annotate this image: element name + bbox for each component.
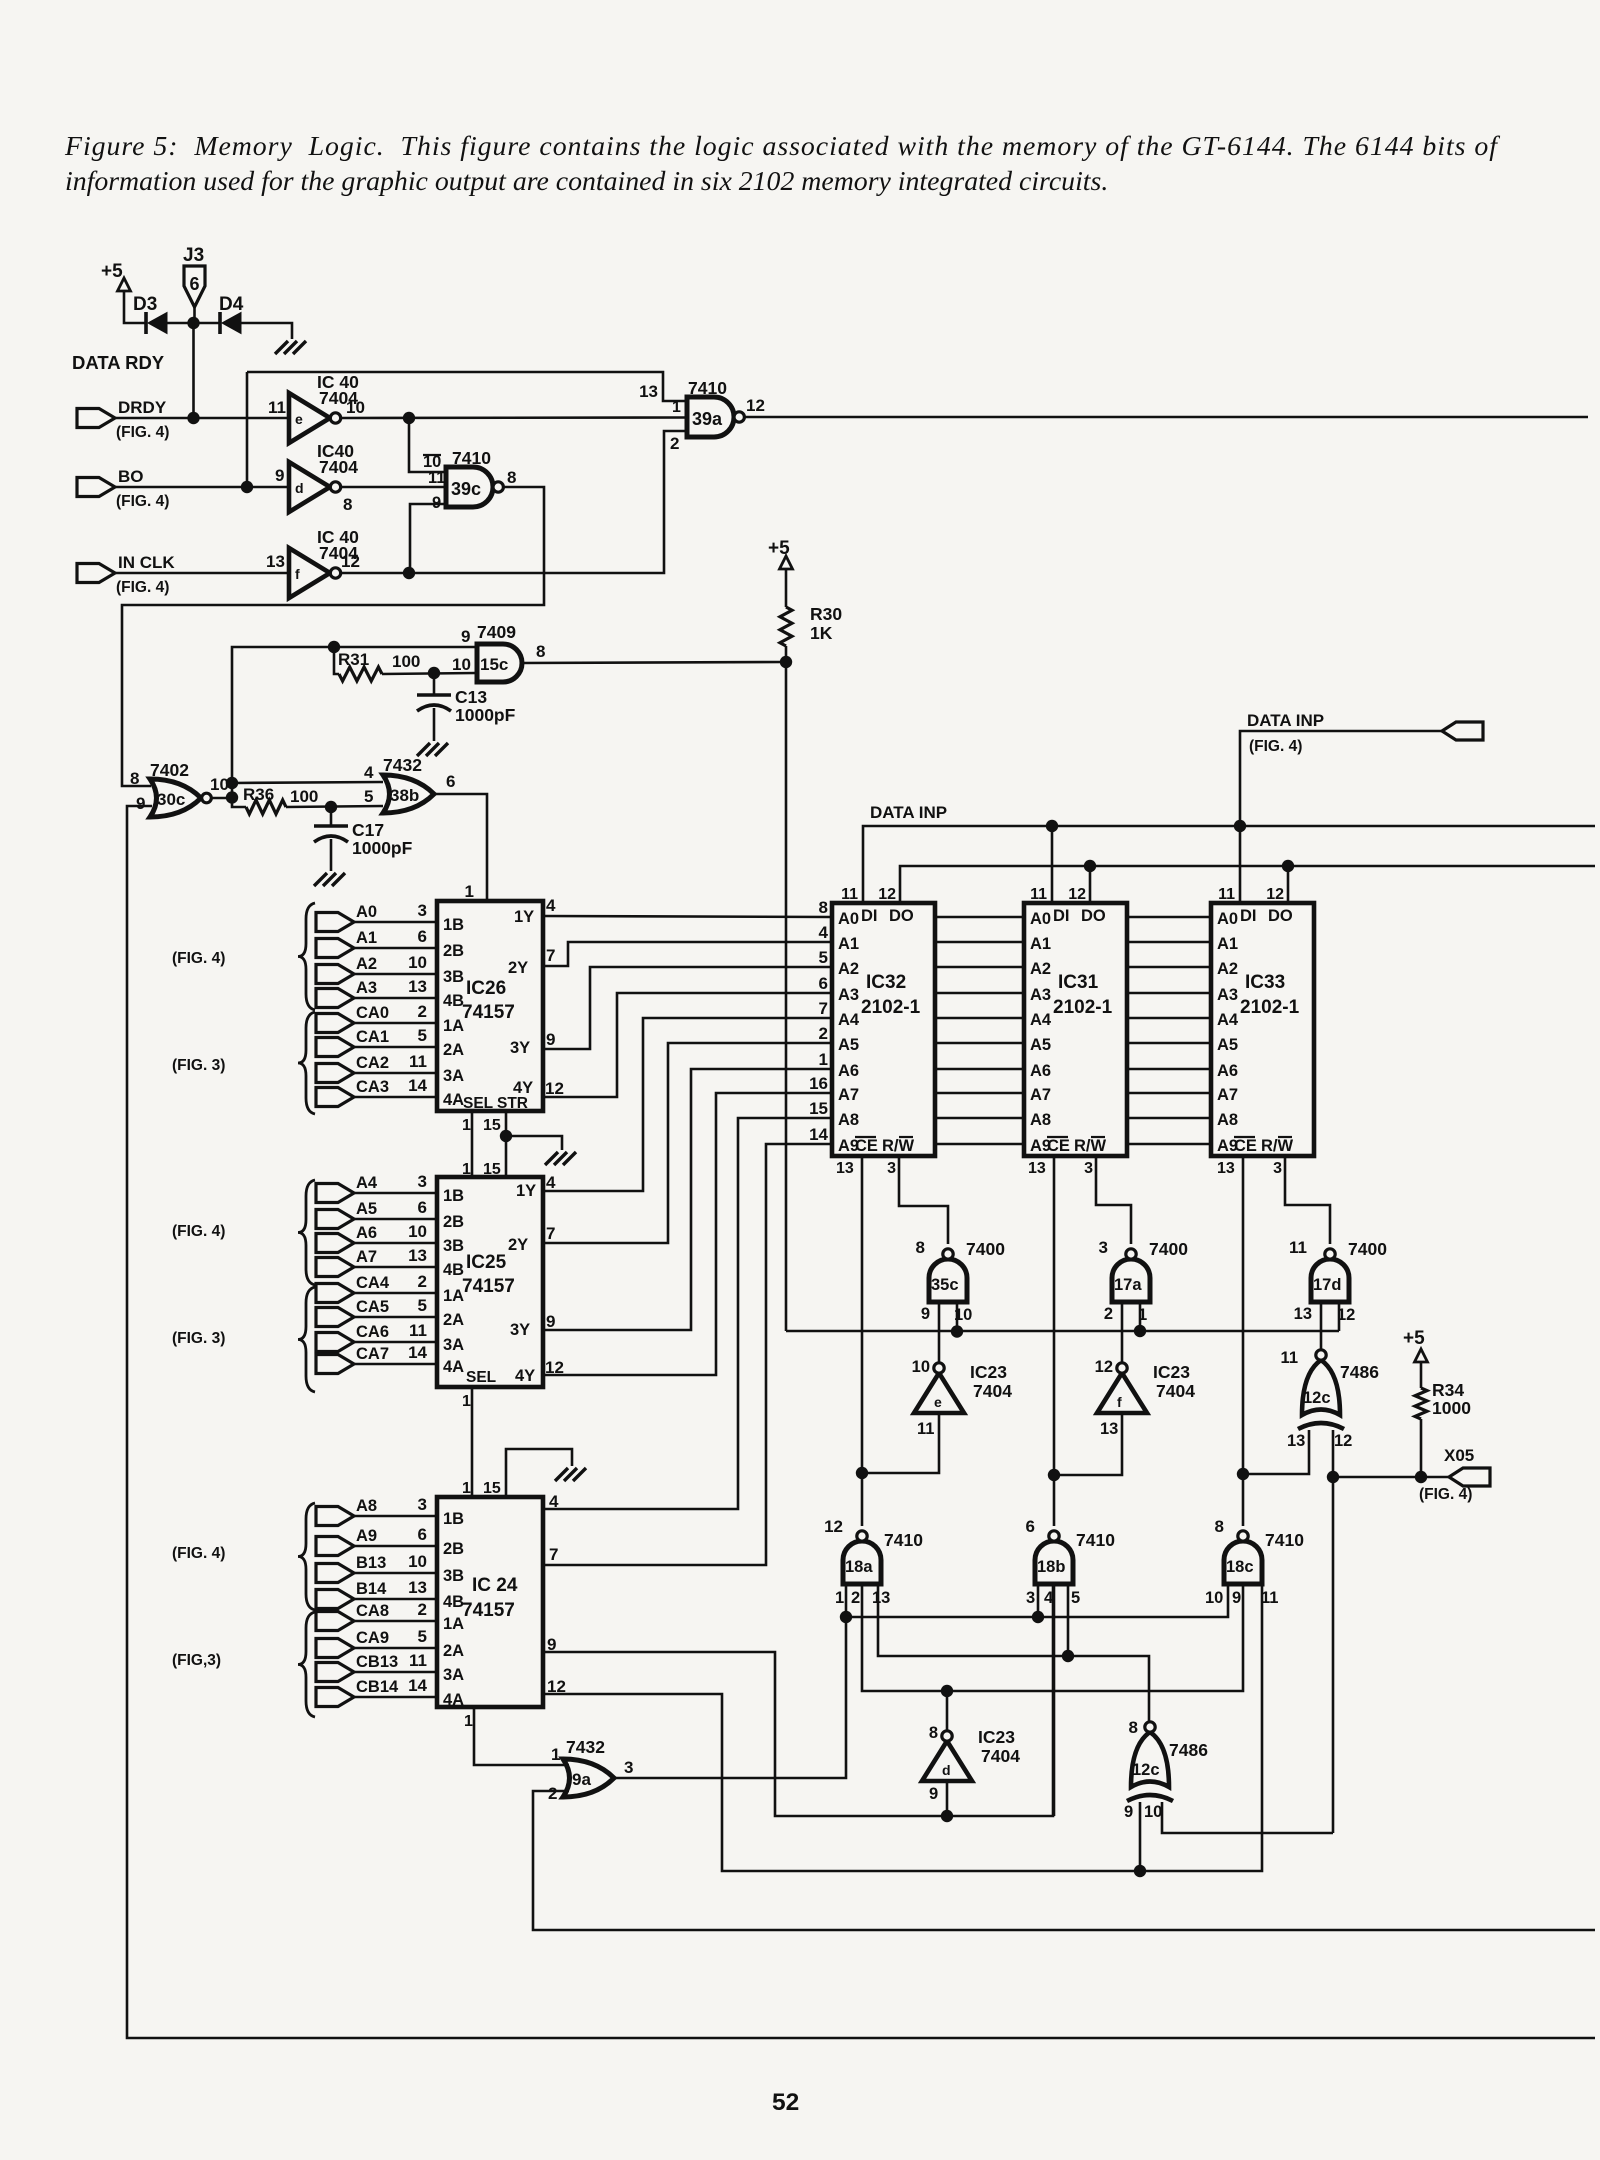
wire CA8 to IC24 pin 2 xyxy=(354,1620,437,1623)
label IC26 xyxy=(466,978,506,999)
svg-text:Figure 5: Memory Logic. Thi: Figure 5: Memory Logic. This figure cont… xyxy=(64,131,1500,162)
svg-text:12: 12 xyxy=(341,552,360,571)
svg-text:7410: 7410 xyxy=(1076,1530,1115,1550)
svg-text:IC23: IC23 xyxy=(1153,1362,1190,1382)
label pins 13/3 (IC33) xyxy=(1217,1160,1282,1177)
node 30c output upper xyxy=(226,777,238,789)
node DO IC31 xyxy=(1084,860,1096,872)
svg-text:X05: X05 xyxy=(1444,1446,1474,1465)
label 7404 (d) xyxy=(981,1746,1020,1766)
svg-text:DI: DI xyxy=(1240,907,1257,925)
wire CB14 to IC24 pin 14 xyxy=(354,1696,437,1699)
svg-text:f: f xyxy=(1117,1394,1122,1410)
wire 12c-l pin 9 stub xyxy=(1139,1802,1142,1871)
svg-text:8: 8 xyxy=(130,769,139,788)
svg-text:(FIG. 4): (FIG. 4) xyxy=(116,493,169,510)
svg-text:A7: A7 xyxy=(356,1248,377,1266)
label IC32 xyxy=(866,972,906,993)
svg-text:74157: 74157 xyxy=(462,1276,515,1297)
svg-text:35c: 35c xyxy=(931,1276,959,1294)
svg-text:7400: 7400 xyxy=(1348,1239,1387,1259)
connector X05 output xyxy=(1419,1446,1490,1503)
wire R31 to 15c pin 10 xyxy=(382,673,476,674)
connector CA3 input xyxy=(316,1076,428,1107)
svg-text:B13: B13 xyxy=(356,1554,386,1572)
label 7410 (18c) xyxy=(1265,1530,1304,1550)
svg-text:4B: 4B xyxy=(443,992,464,1010)
nand-gate 39c (7410) xyxy=(446,467,503,507)
wire IC32 CE line xyxy=(861,1156,864,1473)
label 7432 (9a) xyxy=(566,1737,605,1757)
wire IC25 2Y to IC32 A5 xyxy=(543,1043,832,1243)
svg-text:7486: 7486 xyxy=(1169,1740,1208,1760)
svg-text:13: 13 xyxy=(408,1246,427,1265)
svg-text:100: 100 xyxy=(290,787,318,806)
svg-text:10: 10 xyxy=(346,398,365,417)
label pins 11/12 (IC31) xyxy=(1030,886,1086,903)
wire C17 to ground xyxy=(330,839,333,871)
svg-text:11: 11 xyxy=(1289,1238,1307,1257)
svg-text:IC26: IC26 xyxy=(466,978,506,999)
svg-text:2B: 2B xyxy=(443,1540,464,1558)
wire CA3 to IC26 pin 14 xyxy=(354,1096,437,1099)
svg-text:12c: 12c xyxy=(1303,1389,1331,1407)
svg-text:1Y: 1Y xyxy=(516,1182,536,1200)
svg-text:9: 9 xyxy=(921,1305,930,1323)
svg-text:13: 13 xyxy=(872,1589,890,1607)
label pin 6 (18b) xyxy=(1026,1517,1035,1536)
svg-text:10: 10 xyxy=(452,655,471,674)
label pin 3 (9a) xyxy=(624,1758,633,1777)
wire f input to CE line xyxy=(1054,1413,1122,1475)
wire IC33 R/W to 17d output xyxy=(1285,1156,1330,1244)
node e-output junction xyxy=(403,412,415,424)
node f-output junction xyxy=(403,567,415,579)
svg-text:DO: DO xyxy=(889,907,914,925)
wire STR down to IC25 xyxy=(505,1136,508,1177)
svg-text:A4: A4 xyxy=(356,1174,378,1192)
svg-text:9: 9 xyxy=(136,794,145,813)
brace FIG4 group (IC25) xyxy=(298,1180,315,1285)
svg-text:2A: 2A xyxy=(443,1041,464,1059)
label pin 13 (IC23 f) xyxy=(1100,1420,1118,1438)
svg-text:13: 13 xyxy=(836,1160,854,1177)
svg-text:A6: A6 xyxy=(356,1224,377,1242)
wire address bus IC32-IC31 xyxy=(935,917,1024,1144)
wire 39a pin13 top line xyxy=(247,372,687,401)
svg-text:1A: 1A xyxy=(443,1287,464,1305)
svg-text:11: 11 xyxy=(917,1420,934,1438)
label 1Y (IC25) xyxy=(516,1173,556,1200)
connector B13 input xyxy=(316,1552,427,1583)
connector DATA INP output xyxy=(1247,711,1483,755)
inverter U-IC23d xyxy=(922,1731,972,1781)
svg-text:DATA INP: DATA INP xyxy=(870,803,947,822)
svg-text:74157: 74157 xyxy=(462,1002,515,1023)
wire A2 to IC26 pin 10 xyxy=(354,973,437,976)
svg-text:R30: R30 xyxy=(810,604,842,624)
label pin 11 (IC40 e) xyxy=(268,398,286,417)
wire IN CLK to inverter f xyxy=(115,572,289,575)
ground (C13) xyxy=(417,743,448,756)
label (FIG. 3) IC25 xyxy=(172,1330,225,1347)
wire +5 to D3 xyxy=(124,291,146,323)
svg-text:9: 9 xyxy=(1232,1589,1241,1607)
wire 18b pin 5 stub xyxy=(1067,1584,1070,1656)
svg-text:R/W: R/W xyxy=(1074,1137,1107,1155)
label IC33 xyxy=(1245,972,1285,993)
wire BO junction up to top line xyxy=(246,372,249,487)
label IC31 xyxy=(1058,972,1099,993)
wire B13 to IC24 pin 10 xyxy=(354,1572,437,1575)
wire 30c output up to 15c pin 9 xyxy=(232,647,476,797)
wire IC26 SEL to IC25 SEL xyxy=(471,1111,474,1177)
title caption line 2 xyxy=(65,166,1108,197)
svg-text:3: 3 xyxy=(624,1758,633,1777)
connector DRDY input xyxy=(77,398,169,441)
svg-text:A5: A5 xyxy=(1217,1036,1238,1054)
label DATA INP (bus) xyxy=(870,803,947,822)
brace FIG4 group (IC24) xyxy=(298,1503,315,1610)
label pin 9 (39c) xyxy=(432,494,441,512)
svg-text:17a: 17a xyxy=(1114,1276,1142,1294)
svg-text:2: 2 xyxy=(418,1002,427,1021)
capacitor C17 1000pF xyxy=(314,820,413,858)
svg-text:2: 2 xyxy=(819,1024,828,1043)
wire IC33 CE line xyxy=(1242,1156,1245,1526)
svg-text:A2: A2 xyxy=(1217,960,1238,978)
svg-text:10: 10 xyxy=(1205,1589,1223,1607)
svg-text:4: 4 xyxy=(546,896,556,915)
label 4Y (IC26) xyxy=(513,1079,564,1098)
wire CA2 to IC26 pin 11 xyxy=(354,1072,437,1075)
wire d input to 3Y line xyxy=(946,1781,949,1816)
multiplexer IC25 74157 xyxy=(437,1177,543,1387)
connector A6 input xyxy=(316,1222,427,1253)
ground (C17) xyxy=(314,873,345,886)
wire DO bus xyxy=(900,866,1595,903)
svg-text:A1: A1 xyxy=(838,935,859,953)
svg-text:12: 12 xyxy=(1068,886,1086,903)
nand-gate 17d (7400) xyxy=(1311,1249,1349,1302)
svg-text:8: 8 xyxy=(1215,1517,1224,1536)
diode D4 xyxy=(219,294,244,334)
svg-text:74157: 74157 xyxy=(462,1600,515,1621)
svg-text:C17: C17 xyxy=(352,820,384,840)
connector CB13 input xyxy=(316,1651,427,1682)
svg-text:A1: A1 xyxy=(356,929,377,947)
label pin 8 (12c lower) xyxy=(1129,1718,1138,1737)
svg-text:2: 2 xyxy=(418,1600,427,1619)
ground (D4) xyxy=(275,341,306,354)
svg-text:A2: A2 xyxy=(838,960,859,978)
svg-text:e: e xyxy=(295,411,303,427)
svg-text:4: 4 xyxy=(364,763,374,782)
svg-text:13: 13 xyxy=(408,977,427,996)
svg-text:4A: 4A xyxy=(443,1091,464,1109)
label pin 11 (39c) xyxy=(428,469,445,487)
page number 52 xyxy=(772,2089,799,2116)
svg-text:14: 14 xyxy=(809,1125,828,1144)
wire D4 to ground xyxy=(241,323,292,339)
wire select bus to 18c pin 10 xyxy=(846,1584,1228,1617)
svg-text:1: 1 xyxy=(672,399,681,416)
wire R30 pull-up bus xyxy=(786,1330,1339,1333)
inverter U-IC40d xyxy=(289,462,341,512)
node IC33 CE junction xyxy=(1237,1468,1249,1480)
wire A8 to IC24 pin 3 xyxy=(354,1515,437,1518)
svg-text:BO: BO xyxy=(118,467,144,486)
svg-text:A3: A3 xyxy=(1030,986,1051,1004)
label pin 10 (IC23 e) xyxy=(912,1358,930,1376)
memory IC33 2102-1 xyxy=(1211,903,1314,1156)
label 7410 (18b) xyxy=(1076,1530,1115,1550)
svg-text:DATA INP: DATA INP xyxy=(1247,711,1324,730)
wire 17a pin 2 to f output xyxy=(1121,1302,1124,1363)
svg-text:1A: 1A xyxy=(443,1017,464,1035)
svg-text:2: 2 xyxy=(1104,1305,1113,1323)
svg-text:2102-1: 2102-1 xyxy=(861,997,921,1018)
svg-text:12: 12 xyxy=(878,886,896,903)
label pin 13 (IC40 f) xyxy=(266,552,285,571)
wire CA7 to IC25 pin 14 xyxy=(354,1363,437,1366)
svg-text:4: 4 xyxy=(1044,1589,1054,1607)
svg-text:STR: STR xyxy=(497,1095,528,1112)
label SEL STR (IC26) xyxy=(463,1095,528,1112)
svg-text:D4: D4 xyxy=(219,294,244,315)
label pin 1 (9a) xyxy=(551,1745,560,1764)
svg-text:18c: 18c xyxy=(1226,1558,1254,1576)
node R30/15c junction xyxy=(780,656,792,668)
svg-text:DI: DI xyxy=(1053,907,1070,925)
wire IC31 CE line xyxy=(1053,1156,1056,1526)
label SEL (IC25) xyxy=(466,1369,496,1386)
svg-text:6: 6 xyxy=(446,772,455,791)
wire IC31 R/W to 17a output xyxy=(1096,1156,1131,1244)
svg-text:A8: A8 xyxy=(1217,1111,1238,1129)
label 7410 (18a) xyxy=(884,1530,923,1550)
svg-text:10: 10 xyxy=(408,1552,427,1571)
resistor R30 1K xyxy=(780,604,842,646)
wire 12c-u pin 13 to CE line xyxy=(1243,1430,1309,1474)
svg-text:3B: 3B xyxy=(443,1567,464,1585)
wire A7 to IC25 pin 13 xyxy=(354,1266,437,1269)
node BO junction xyxy=(241,481,253,493)
svg-text:30c: 30c xyxy=(157,790,185,809)
wire CA0 to IC26 pin 2 xyxy=(354,1022,437,1025)
node 12c lower pin 9 tap xyxy=(1134,1865,1146,1877)
wire 38b pin 4 line xyxy=(232,782,383,783)
label pins 1/15 above IC25 xyxy=(462,1161,501,1178)
label 1Y (IC26) xyxy=(514,896,556,926)
power +5 (top left) xyxy=(101,261,131,291)
svg-text:(FIG. 4): (FIG. 4) xyxy=(116,424,169,441)
label pin 10 (30c) xyxy=(210,775,229,794)
wire IC25 SEL to IC24 SEL xyxy=(471,1387,474,1497)
svg-text:D3: D3 xyxy=(133,294,157,315)
svg-text:A5: A5 xyxy=(356,1200,377,1218)
svg-text:1K: 1K xyxy=(810,623,833,643)
label pin 9 (30c) xyxy=(136,794,145,813)
svg-text:A0: A0 xyxy=(1217,910,1238,928)
label 7404 (e) xyxy=(973,1381,1012,1401)
svg-text:A3: A3 xyxy=(838,986,859,1004)
svg-text:5: 5 xyxy=(418,1026,427,1045)
wire DO stub IC31 xyxy=(1089,866,1092,903)
multiplexer IC24 74157 xyxy=(437,1497,543,1709)
svg-text:13: 13 xyxy=(639,382,658,401)
svg-text:+5: +5 xyxy=(1403,1328,1425,1349)
label pin 7 (IC24) xyxy=(549,1545,558,1564)
svg-text:CA8: CA8 xyxy=(356,1602,389,1620)
wire 30c pin 9 to bottom rail xyxy=(127,806,1595,2038)
wire e input to CE line xyxy=(862,1413,939,1473)
svg-text:9: 9 xyxy=(432,494,441,512)
svg-text:15: 15 xyxy=(483,1117,501,1134)
label pin 4 (38b) xyxy=(364,763,374,782)
node 30c output lower xyxy=(226,791,238,803)
xor-gate 12c lower (7486) xyxy=(1127,1722,1173,1801)
svg-text:2Y: 2Y xyxy=(508,959,528,977)
svg-text:+5: +5 xyxy=(101,261,123,282)
label pin 8 (30c) xyxy=(130,769,139,788)
svg-text:4Y: 4Y xyxy=(515,1367,535,1385)
wire A6 to IC25 pin 10 xyxy=(354,1242,437,1245)
svg-text:CA9: CA9 xyxy=(356,1629,389,1647)
label 7410 (39c) xyxy=(452,448,491,468)
svg-text:A7: A7 xyxy=(1217,1086,1238,1104)
svg-text:4A: 4A xyxy=(443,1358,464,1376)
svg-text:6: 6 xyxy=(418,1198,427,1217)
wire 17d pin 13 to 12c output xyxy=(1320,1302,1323,1349)
wire BO to inverter d xyxy=(115,486,289,489)
node DO IC33 xyxy=(1282,860,1294,872)
wire R34 to X05 xyxy=(1420,1419,1423,1477)
label IC23 (d) xyxy=(978,1727,1015,1747)
connector CA1 input xyxy=(316,1026,427,1057)
svg-text:2Y: 2Y xyxy=(508,1236,528,1254)
svg-text:J3: J3 xyxy=(183,245,204,266)
svg-text:6: 6 xyxy=(1026,1517,1035,1536)
label (FIG. 4) IC26 xyxy=(172,950,225,967)
wire J3 node to DRDY line xyxy=(192,323,195,418)
svg-text:5: 5 xyxy=(418,1296,427,1315)
svg-text:18b: 18b xyxy=(1037,1558,1065,1576)
label IC 40 (f) xyxy=(317,527,359,547)
wire 9a output to 18-gate bus xyxy=(614,1617,846,1778)
label pin 12 (12c upper) xyxy=(1334,1432,1352,1450)
label pin 10 (39c) xyxy=(423,453,441,471)
svg-text:1000pF: 1000pF xyxy=(455,705,516,725)
svg-text:CE: CE xyxy=(1047,1137,1070,1155)
wire IC24 1Y to IC32 A8 xyxy=(543,1118,832,1509)
svg-text:(FIG. 4): (FIG. 4) xyxy=(1249,738,1302,755)
label pin 9 (IC24) xyxy=(547,1635,556,1654)
node 17a pin1 bus tap xyxy=(1134,1325,1146,1337)
svg-text:A5: A5 xyxy=(838,1036,859,1054)
svg-text:9: 9 xyxy=(461,627,470,646)
svg-text:2B: 2B xyxy=(443,1213,464,1231)
label pin 9 (IC40 d) xyxy=(275,466,284,485)
svg-text:100: 100 xyxy=(392,652,420,671)
label (FIG. 3) IC26 xyxy=(172,1057,225,1074)
svg-text:R36: R36 xyxy=(243,785,274,804)
svg-text:IC33: IC33 xyxy=(1245,972,1285,993)
svg-text:e: e xyxy=(934,1394,942,1410)
node IC31 CE junction xyxy=(1048,1469,1060,1481)
svg-text:A9: A9 xyxy=(356,1527,377,1545)
node IC32 CE junction xyxy=(856,1467,868,1479)
diode D3 xyxy=(133,294,167,334)
node 35c pin10 bus tap xyxy=(951,1325,963,1337)
label pin 10 (12c lower) xyxy=(1144,1803,1162,1821)
node 9a/18a pin1 xyxy=(840,1611,852,1623)
node C13 tap xyxy=(428,667,440,679)
label pin 8 (IC23 d) xyxy=(929,1724,938,1742)
svg-text:10: 10 xyxy=(408,953,427,972)
svg-text:7: 7 xyxy=(549,1545,558,1564)
label pin 8 (39c) xyxy=(507,468,516,487)
wire CB13 to IC24 pin 11 xyxy=(354,1671,437,1674)
svg-text:1: 1 xyxy=(835,1589,844,1607)
svg-text:(FIG,3): (FIG,3) xyxy=(172,1652,221,1669)
svg-text:5: 5 xyxy=(1071,1589,1080,1607)
svg-text:CA2: CA2 xyxy=(356,1054,389,1072)
wire 18b pin 4 stub xyxy=(1053,1584,1056,1816)
svg-text:CA6: CA6 xyxy=(356,1323,389,1341)
wire 12c-u pin 12 to X05 net xyxy=(1332,1430,1335,1833)
connector A7 input xyxy=(316,1246,427,1277)
label pins 13/3 (IC31) xyxy=(1028,1160,1093,1177)
svg-text:8: 8 xyxy=(916,1238,925,1257)
connector A8 input xyxy=(316,1495,427,1526)
label 74157 (IC24) xyxy=(462,1600,515,1621)
label 7432 (38b) xyxy=(383,755,422,775)
svg-text:4A: 4A xyxy=(443,1691,464,1709)
svg-text:CA1: CA1 xyxy=(356,1028,389,1046)
label 7410 (39a) xyxy=(688,378,727,398)
svg-text:8: 8 xyxy=(343,495,352,514)
wire R36 left leg xyxy=(232,798,246,808)
svg-text:2A: 2A xyxy=(443,1642,464,1660)
label pin 12 (IC23 f) xyxy=(1095,1358,1113,1376)
svg-text:6: 6 xyxy=(189,274,199,294)
or-gate 9a (7432) xyxy=(563,1759,614,1797)
label pin 9 (IC23 d) xyxy=(929,1785,938,1803)
svg-text:15: 15 xyxy=(809,1099,828,1118)
wire CA9 to IC24 pin 5 xyxy=(354,1647,437,1650)
connector CA6 input xyxy=(316,1321,427,1352)
brace FIG3 group (IC25) xyxy=(298,1287,315,1392)
label pin 1 below IC24 xyxy=(464,1713,473,1730)
svg-text:3: 3 xyxy=(418,901,427,920)
node R31 tap xyxy=(328,641,340,653)
svg-text:A6: A6 xyxy=(1217,1062,1238,1080)
svg-text:7432: 7432 xyxy=(566,1737,605,1757)
wire A9 to IC24 pin 6 xyxy=(354,1545,437,1548)
node d input tap xyxy=(941,1810,953,1822)
wire address bus IC31-IC33 xyxy=(1127,917,1211,1144)
label pin 3 (17a) xyxy=(1099,1238,1108,1257)
label pin 9 (35c) xyxy=(921,1305,930,1323)
svg-text:R34: R34 xyxy=(1432,1380,1464,1400)
svg-text:IC 24: IC 24 xyxy=(472,1575,518,1596)
label pin 11 (12c upper) xyxy=(1281,1349,1298,1367)
wire 18a pin 2 to d-output bus xyxy=(862,1584,1243,1691)
svg-text:13: 13 xyxy=(1217,1160,1235,1177)
svg-text:14: 14 xyxy=(408,1343,427,1362)
svg-text:CA0: CA0 xyxy=(356,1004,389,1022)
